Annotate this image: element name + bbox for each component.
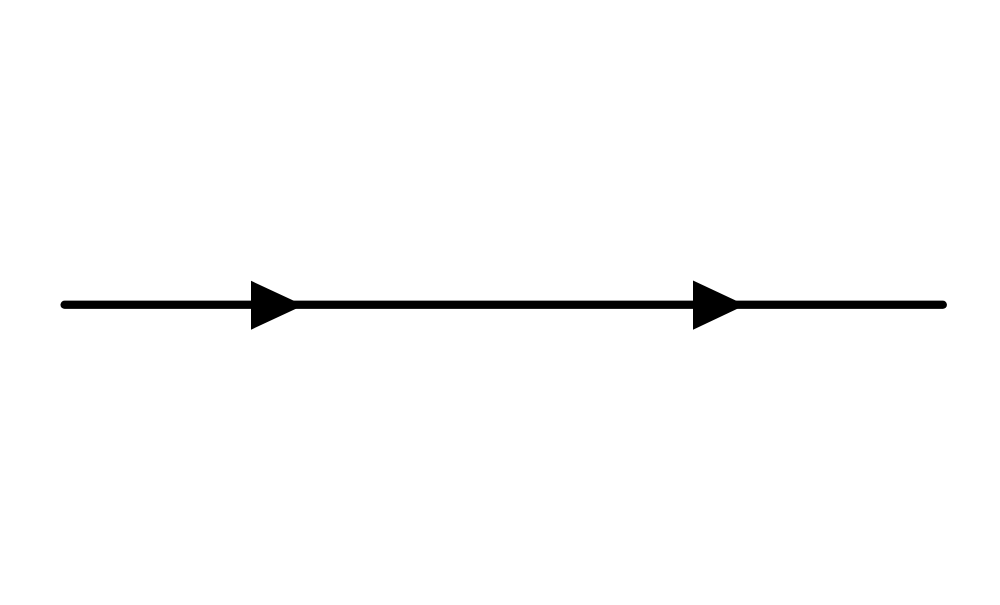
wire — [65, 301, 943, 309]
arrowhead 2 (flow direction) — [693, 281, 745, 330]
arrowhead 1 (flow direction) — [251, 281, 304, 330]
